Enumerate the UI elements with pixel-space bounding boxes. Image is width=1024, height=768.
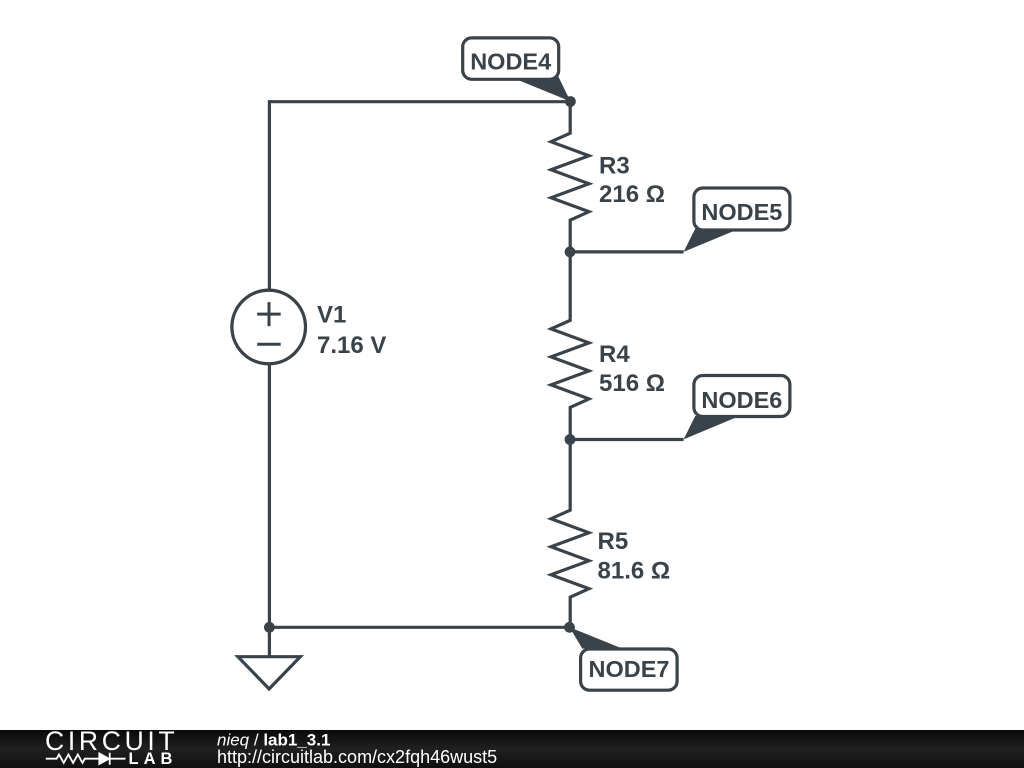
resistor R4 bbox=[551, 252, 589, 440]
svg-text:http://circuitlab.com/cx2fqh46: http://circuitlab.com/cx2fqh46wust5 bbox=[217, 747, 497, 767]
wire from V1 bottom to ground node bbox=[268, 363, 271, 627]
wire to NODE6 flag bbox=[570, 438, 684, 441]
NODE7 flag bbox=[581, 649, 678, 690]
junction node dot NODE7 bbox=[564, 622, 575, 633]
junction node dot NODE6 bbox=[565, 434, 576, 445]
resistor R5 bbox=[551, 440, 589, 628]
NODE6 flag bbox=[694, 376, 790, 417]
svg-text:NODE6: NODE6 bbox=[701, 387, 782, 413]
svg-text:NODE7: NODE7 bbox=[589, 656, 670, 682]
NODE5 flag tail bbox=[684, 229, 735, 252]
wire ground stub bbox=[268, 627, 271, 657]
NODE7 flag tail bbox=[570, 627, 621, 648]
svg-text:81.6 Ω: 81.6 Ω bbox=[598, 558, 671, 585]
svg-text:R3: R3 bbox=[599, 152, 630, 179]
svg-text:R5: R5 bbox=[598, 528, 629, 555]
R4 value label bbox=[599, 341, 665, 397]
junction node dot NODE4 bbox=[565, 96, 576, 107]
footer bar bbox=[0, 730, 1024, 768]
wire from V1 top to NODE4 bbox=[269, 102, 570, 291]
svg-text:516 Ω: 516 Ω bbox=[599, 370, 665, 397]
R5 value label bbox=[598, 528, 671, 585]
NODE5 flag bbox=[694, 188, 790, 230]
svg-text:7.16 V: 7.16 V bbox=[317, 332, 386, 359]
wire bottom horizontal bbox=[269, 626, 569, 629]
NODE4 flag tail bbox=[517, 75, 571, 102]
NODE6 flag tail bbox=[684, 416, 735, 440]
R3 value label bbox=[599, 152, 665, 208]
voltage source V1 bbox=[232, 290, 306, 364]
junction node dot NODE5 bbox=[565, 247, 576, 258]
svg-text:LAB: LAB bbox=[129, 750, 178, 768]
V1 value label bbox=[317, 301, 386, 359]
svg-text:R4: R4 bbox=[599, 341, 630, 368]
svg-text:V1: V1 bbox=[317, 301, 346, 328]
wire to NODE5 flag bbox=[570, 250, 684, 253]
NODE4 flag bbox=[463, 38, 559, 79]
ground symbol bbox=[238, 657, 300, 689]
svg-text:216 Ω: 216 Ω bbox=[599, 181, 665, 208]
svg-text:NODE5: NODE5 bbox=[701, 199, 782, 225]
resistor R3 bbox=[551, 102, 589, 252]
junction node dot at ground bbox=[264, 622, 275, 633]
CircuitLab logo: resistor-diode line bbox=[46, 753, 126, 765]
svg-text:NODE4: NODE4 bbox=[470, 49, 551, 75]
